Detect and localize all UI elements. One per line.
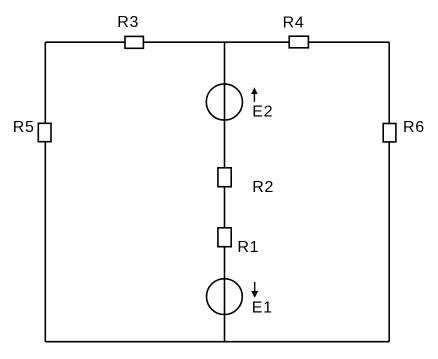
resistor R2 xyxy=(218,168,231,187)
svg-text:R3: R3 xyxy=(117,14,139,31)
arrow E2 direction (up) xyxy=(251,87,257,102)
wire left side xyxy=(44,42,46,342)
wire top side xyxy=(45,41,389,43)
svg-text:E1: E1 xyxy=(252,299,273,316)
resistor R5 xyxy=(38,123,51,141)
voltage source E2 xyxy=(206,84,242,120)
voltage source E1 xyxy=(207,279,243,315)
arrow E1 direction (down) xyxy=(251,282,258,298)
svg-text:E2: E2 xyxy=(252,103,273,120)
resistor R1 xyxy=(218,228,231,247)
wire middle branch xyxy=(224,42,226,342)
resistor R3 xyxy=(125,36,143,48)
svg-text:R1: R1 xyxy=(237,239,259,256)
svg-text:R2: R2 xyxy=(252,179,274,196)
wire bottom side xyxy=(45,341,389,343)
svg-text:R6: R6 xyxy=(403,119,425,136)
wire right side xyxy=(388,42,390,342)
resistor R4 xyxy=(289,36,308,48)
resistor R6 xyxy=(383,124,396,142)
svg-text:R4: R4 xyxy=(283,15,305,32)
svg-text:R5: R5 xyxy=(13,119,35,136)
